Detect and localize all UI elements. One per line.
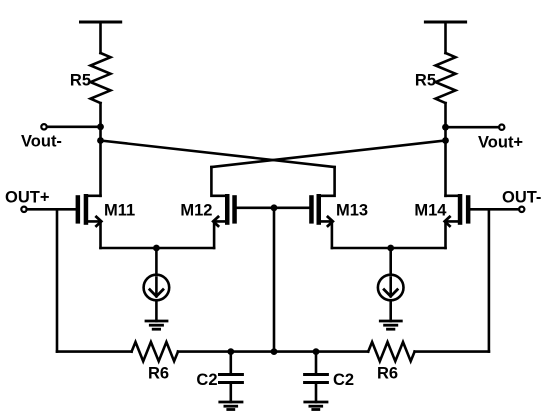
resistor R6 (right) [368,342,414,361]
wire (M14 source lead) [446,221,458,248]
wire (cross-couple diagonal: Vout- node to M13 drain) [101,141,335,168]
capacitor C2 (right) bottom lead [315,384,318,402]
wire (right feedback drop from OUT- line) [488,209,491,351]
capacitor C2 (left) plates [220,375,243,383]
transistor M12 gate bar [232,195,237,223]
node (right rail / cross-couple junction) [442,137,449,144]
wire (bottom bus, left end to R6) [57,350,132,353]
svg-text:OUT-: OUT- [502,189,541,207]
capacitor C2 (right) plates [305,375,328,383]
node (right rail / Vout+ junction) [442,124,449,131]
node (left C2 junction) [227,348,234,355]
current source I2 arrow [389,278,392,297]
wire (M11 source lead) [88,221,100,248]
node (center drop junction) [271,348,278,355]
ground (under right C2) [305,402,327,410]
svg-text:R6: R6 [377,364,398,382]
wire (bottom bus, right C2 node to R6) [316,350,368,353]
node (left rail / cross-couple junction) [97,137,104,144]
capacitor C2 (left) bottom lead [230,384,233,402]
transistor M11 source arrow [96,217,101,226]
wire (Vout+ stub) [446,126,500,129]
resistor R5 (left) [91,53,111,103]
terminal OUT- (open circle) [519,207,524,212]
wire (M12 gate to center node) [237,207,274,210]
ground (under I2) [380,321,401,329]
transistor M14 source arrow [445,217,450,226]
svg-text:R5: R5 [70,72,91,90]
transistor M12 channel bar [225,194,230,225]
transistor M11 gate bar [76,195,81,223]
wire (bottom bus, R6 to right end) [415,350,489,353]
svg-text:R6: R6 [148,364,169,382]
current source I1 arrow [155,278,158,297]
svg-text:C2: C2 [333,371,354,389]
transistor M14 channel bar [458,194,463,225]
current source I2 (circle) [378,275,404,301]
power rail symbol (right VDD bar) [425,21,465,24]
capacitor C2 (left) top lead [230,352,233,373]
wire (center drop from gate node to bottom bus) [273,208,276,352]
svg-text:M11: M11 [104,201,135,219]
terminal OUT+ (open circle) [21,207,26,212]
node (gate common node) [271,204,278,211]
wire (I2 to ground) [389,300,392,321]
wire (M13 drain riser) [321,167,335,196]
terminal Vout- (open circle) [41,124,46,129]
node (left tail junction) [153,245,160,252]
wire (bottom bus, R6 to C2 node) [178,350,231,353]
wire (I1 to ground) [155,300,158,321]
ground (under I1) [146,321,167,329]
wire (M14 gate to OUT-) [470,208,519,211]
transistor M13 source arrow [328,217,333,226]
wire (left tail bus) [101,247,215,250]
transistor M13 gate bar [309,195,314,223]
svg-text:M14: M14 [414,201,447,219]
svg-text:C2: C2 [196,371,217,389]
wire (M14 drain lead) [446,195,458,198]
wire (left VDD stem) [99,22,102,53]
wire (right VDD stem) [444,22,447,53]
current source I2 feed wire [389,248,392,275]
wire (M12 drain riser) [211,167,225,196]
wire (right tail bus) [332,247,446,250]
svg-text:Vout+: Vout+ [478,134,523,152]
wire (cross-couple diagonal: Vout+ node to M12 drain) [211,141,445,168]
transistor M11 channel bar [84,194,89,225]
power rail symbol (left VDD bar) [81,21,121,24]
svg-text:M13: M13 [336,201,368,219]
resistor R5 (right) [436,53,456,103]
wire (left feedback drop from OUT+ line) [56,209,59,351]
wire (M12 source lead) [214,221,225,248]
transistor M12 source arrow [213,217,218,226]
node (right tail junction) [387,245,394,252]
svg-text:OUT+: OUT+ [5,189,49,207]
transistor M13 channel bar [317,194,322,225]
wire (right rail: R5 bottom to M14 drain) [444,103,447,196]
wire (Vout- stub) [47,126,101,129]
wire (M11 drain lead) [88,195,100,198]
resistor R6 (left) [132,342,178,361]
wire (bottom bus, left C2 to right C2) [231,350,316,353]
svg-text:Vout-: Vout- [21,133,62,151]
svg-text:M12: M12 [180,201,212,219]
wire (left rail: R5 bottom to M11 drain) [99,103,102,196]
capacitor C2 (right) top lead [315,352,318,373]
current source I1 feed wire [155,248,158,275]
wire (OUT+ to M11 gate) [27,208,76,211]
wire (M13 source lead) [321,221,332,248]
node (left rail / Vout- junction) [97,123,104,130]
svg-text:R5: R5 [415,72,436,90]
ground (under left C2) [220,402,242,410]
transistor M14 gate bar [466,195,471,223]
current source I1 (circle) [144,275,170,301]
terminal Vout+ (open circle) [499,125,504,130]
wire (M13 gate to center node) [274,207,309,210]
node (right C2 junction) [313,348,320,355]
